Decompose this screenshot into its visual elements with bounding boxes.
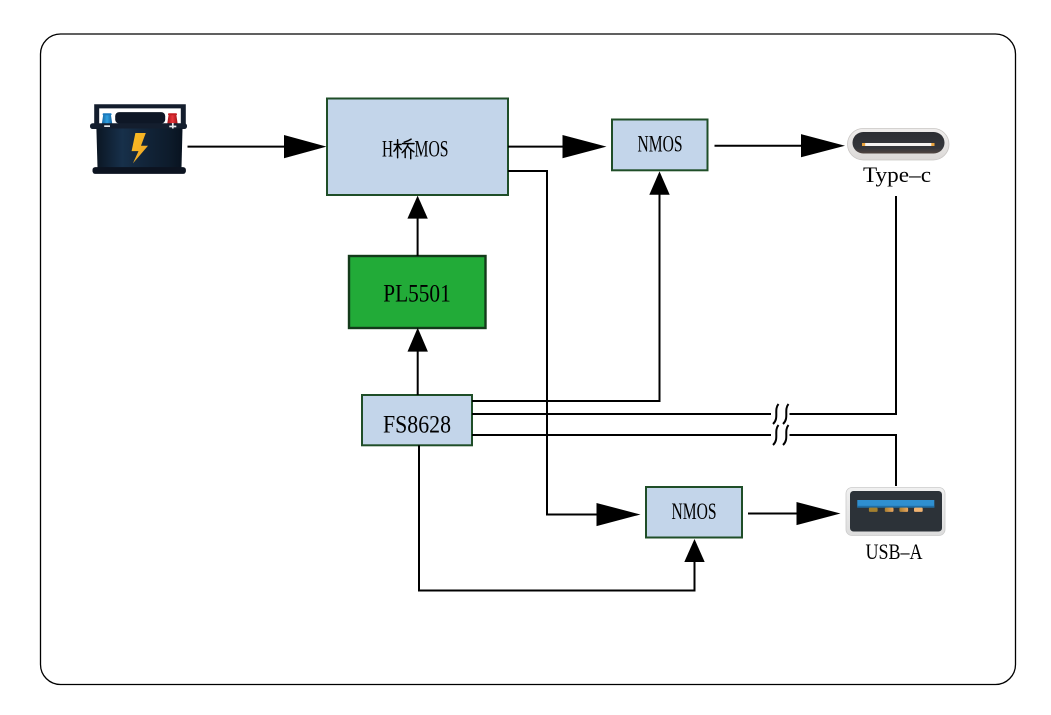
wire FS8628 CC line to Type-c (right with break, up) bbox=[472, 196, 896, 424]
wire NMOS1 to Type-C with arrow bbox=[715, 134, 846, 157]
svg-text:USB–A: USB–A bbox=[866, 539, 923, 564]
block Q2 NMOS (bottom) bbox=[646, 487, 742, 538]
svg-text:NMOS: NMOS bbox=[638, 132, 683, 157]
wire H-bridge lower output to NMOS2 (right, down, right) with arrow bbox=[508, 171, 641, 526]
svg-text:H: H bbox=[382, 137, 393, 162]
base band bbox=[93, 167, 186, 174]
connector J2 USB-A receptacle bbox=[846, 488, 945, 536]
svg-text:Type–c: Type–c bbox=[863, 162, 931, 187]
CJK glyph qiao (bridge) drawn as strokes bbox=[394, 139, 414, 159]
lid band bbox=[90, 123, 187, 129]
handle bar bbox=[94, 104, 186, 124]
center hump bbox=[115, 112, 165, 124]
blue terminal bbox=[102, 114, 112, 124]
red terminal bbox=[167, 114, 177, 124]
svg-text:NMOS: NMOS bbox=[672, 499, 717, 524]
wire FS8628 to PL5501 with arrow (up) bbox=[408, 328, 428, 395]
block U1 H-bridge MOS bbox=[327, 99, 508, 196]
lightning bolt bbox=[132, 133, 148, 163]
crossing-jump squiggle marks bbox=[773, 425, 779, 445]
crossing-jump squiggle marks bbox=[773, 404, 779, 424]
svg-text:FS8628: FS8628 bbox=[383, 412, 451, 439]
wire battery to H-bridge with arrow bbox=[188, 135, 327, 158]
block U2 PL5501 bbox=[349, 256, 486, 328]
wire H-bridge to NMOS1 with arrow bbox=[508, 135, 607, 158]
wire NMOS2 to USB-A with arrow bbox=[748, 502, 841, 525]
wire FS8628 bottom to NMOS2 gate (down, right, up) with arrow bbox=[419, 445, 705, 590]
wire FS8628 data line to USB-A (right with break, down) bbox=[472, 425, 896, 486]
block U3 FS8628 bbox=[362, 395, 472, 445]
block Q1 NMOS (top) bbox=[612, 120, 708, 171]
plus mark bbox=[169, 126, 176, 128]
battery body bbox=[96, 129, 182, 168]
svg-text:MOS: MOS bbox=[415, 137, 449, 162]
battery BT1 bbox=[90, 104, 187, 174]
connector J1 Type-C receptacle bbox=[848, 129, 950, 161]
svg-text:PL5501: PL5501 bbox=[383, 281, 451, 308]
wire PL5501 to H-bridge with arrow (up) bbox=[407, 196, 427, 256]
minus mark bbox=[104, 125, 110, 127]
wire FS8628 gate line to NMOS1 (right then up) with arrow bbox=[472, 171, 670, 401]
